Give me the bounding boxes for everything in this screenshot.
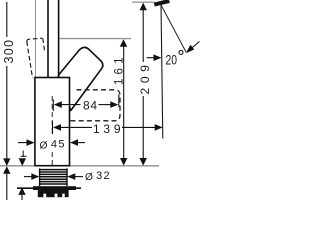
threaded shank xyxy=(39,168,68,186)
svg-text:84: 84 xyxy=(83,98,97,112)
svg-text:209: 209 xyxy=(138,65,152,95)
faucet body xyxy=(35,78,70,166)
svg-text:Ø45: Ø45 xyxy=(40,138,66,151)
dimension diameter 32 xyxy=(24,170,111,183)
faucet lever solid (drawn behind body) xyxy=(58,47,103,110)
svg-text:Ø32: Ø32 xyxy=(85,170,111,183)
svg-text:139: 139 xyxy=(93,122,121,136)
small arrow pointing at reference line xyxy=(147,57,156,59)
dimension mounting depth (below counter, no text) xyxy=(18,151,26,201)
leader arrow from right xyxy=(190,42,200,50)
dimension 139 xyxy=(53,121,163,136)
dimension 84 xyxy=(53,94,119,112)
svg-text:20: 20 xyxy=(166,53,178,68)
svg-text:161: 161 xyxy=(114,58,126,86)
mounting nut xyxy=(17,186,81,197)
dimension 300 xyxy=(2,2,16,200)
vertical reference line from spout tip xyxy=(161,4,163,139)
dimension 209 xyxy=(138,3,152,166)
countertop line xyxy=(0,165,159,167)
svg-text:300: 300 xyxy=(2,40,16,64)
spout tip detail (top right) xyxy=(147,1,200,139)
body center line xyxy=(51,96,53,165)
spout outlet level gray line xyxy=(58,38,131,40)
faucet lever raised position (dashed) xyxy=(27,38,45,78)
dimension diameter 45 xyxy=(18,136,85,152)
spout tip bar xyxy=(154,1,169,5)
left gray extension line xyxy=(35,0,37,78)
angled stream line xyxy=(161,4,187,52)
top gray extension line xyxy=(132,1,155,3)
dimension 161 xyxy=(114,39,128,165)
faucet lever horizontal position (dashed box, drawn over) xyxy=(71,90,121,121)
riser pipe xyxy=(47,0,49,78)
